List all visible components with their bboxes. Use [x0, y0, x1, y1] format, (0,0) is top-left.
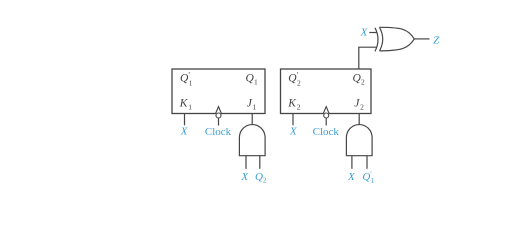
svg-text:X: X — [360, 26, 369, 38]
FF1 label Q1' — [180, 70, 193, 87]
svg-text:Clock: Clock — [205, 126, 232, 138]
FF1 J input wire — [251, 114, 253, 126]
FF2 label K2 — [287, 98, 300, 112]
FF1 K input wire — [184, 114, 186, 126]
svg-text:2: 2 — [297, 103, 301, 112]
flip-flop FF1 body — [172, 69, 265, 114]
FF1 label Q1 — [246, 72, 259, 86]
G1 input stub right — [259, 156, 261, 169]
XOR gate — [375, 27, 414, 51]
FF1 clock edge-trigger symbol — [216, 107, 222, 118]
svg-text:1: 1 — [188, 103, 192, 112]
FF1 label J1 — [247, 98, 257, 112]
FF1 clock wire — [218, 118, 220, 125]
svg-text:Z: Z — [433, 35, 440, 47]
svg-text:X: X — [240, 171, 249, 183]
flip-flop FF2 body — [281, 69, 372, 114]
svg-text:1: 1 — [189, 79, 193, 88]
svg-text:2: 2 — [263, 177, 267, 185]
FF2 clock edge-trigger symbol — [323, 107, 329, 118]
svg-text:Clock: Clock — [313, 126, 340, 138]
G1 input stub left — [245, 156, 247, 169]
FF2 J input wire — [358, 114, 360, 126]
svg-text:Q: Q — [362, 171, 370, 183]
FF2 label Q2 — [353, 72, 366, 86]
G1 input label Q2 — [255, 171, 267, 185]
svg-text:X: X — [180, 126, 189, 138]
FF2 K input wire — [292, 114, 294, 126]
svg-text:1: 1 — [254, 78, 258, 87]
FF2 label J2 — [354, 98, 364, 112]
svg-text:2: 2 — [297, 79, 301, 88]
svg-text:X: X — [289, 126, 298, 138]
AND gate G2 — [346, 125, 372, 156]
XOR output wire — [414, 38, 429, 40]
svg-text:Q: Q — [255, 171, 263, 183]
FF2 label Q2' — [288, 70, 301, 87]
FF1 label K1 — [179, 98, 192, 112]
svg-text:1: 1 — [371, 177, 375, 185]
svg-text:2: 2 — [360, 103, 364, 112]
svg-text:1: 1 — [253, 103, 257, 112]
AND gate G1 — [239, 125, 265, 156]
svg-text:X: X — [347, 171, 356, 183]
G2 input label Q1' — [362, 171, 374, 186]
svg-text:2: 2 — [361, 78, 365, 87]
XOR upper input wire — [369, 32, 377, 34]
G2 input stub left — [351, 156, 353, 169]
FF2 clock wire — [325, 118, 327, 125]
wire Q2 output to XOR lower input — [359, 47, 377, 69]
G2 input stub right — [366, 156, 368, 169]
